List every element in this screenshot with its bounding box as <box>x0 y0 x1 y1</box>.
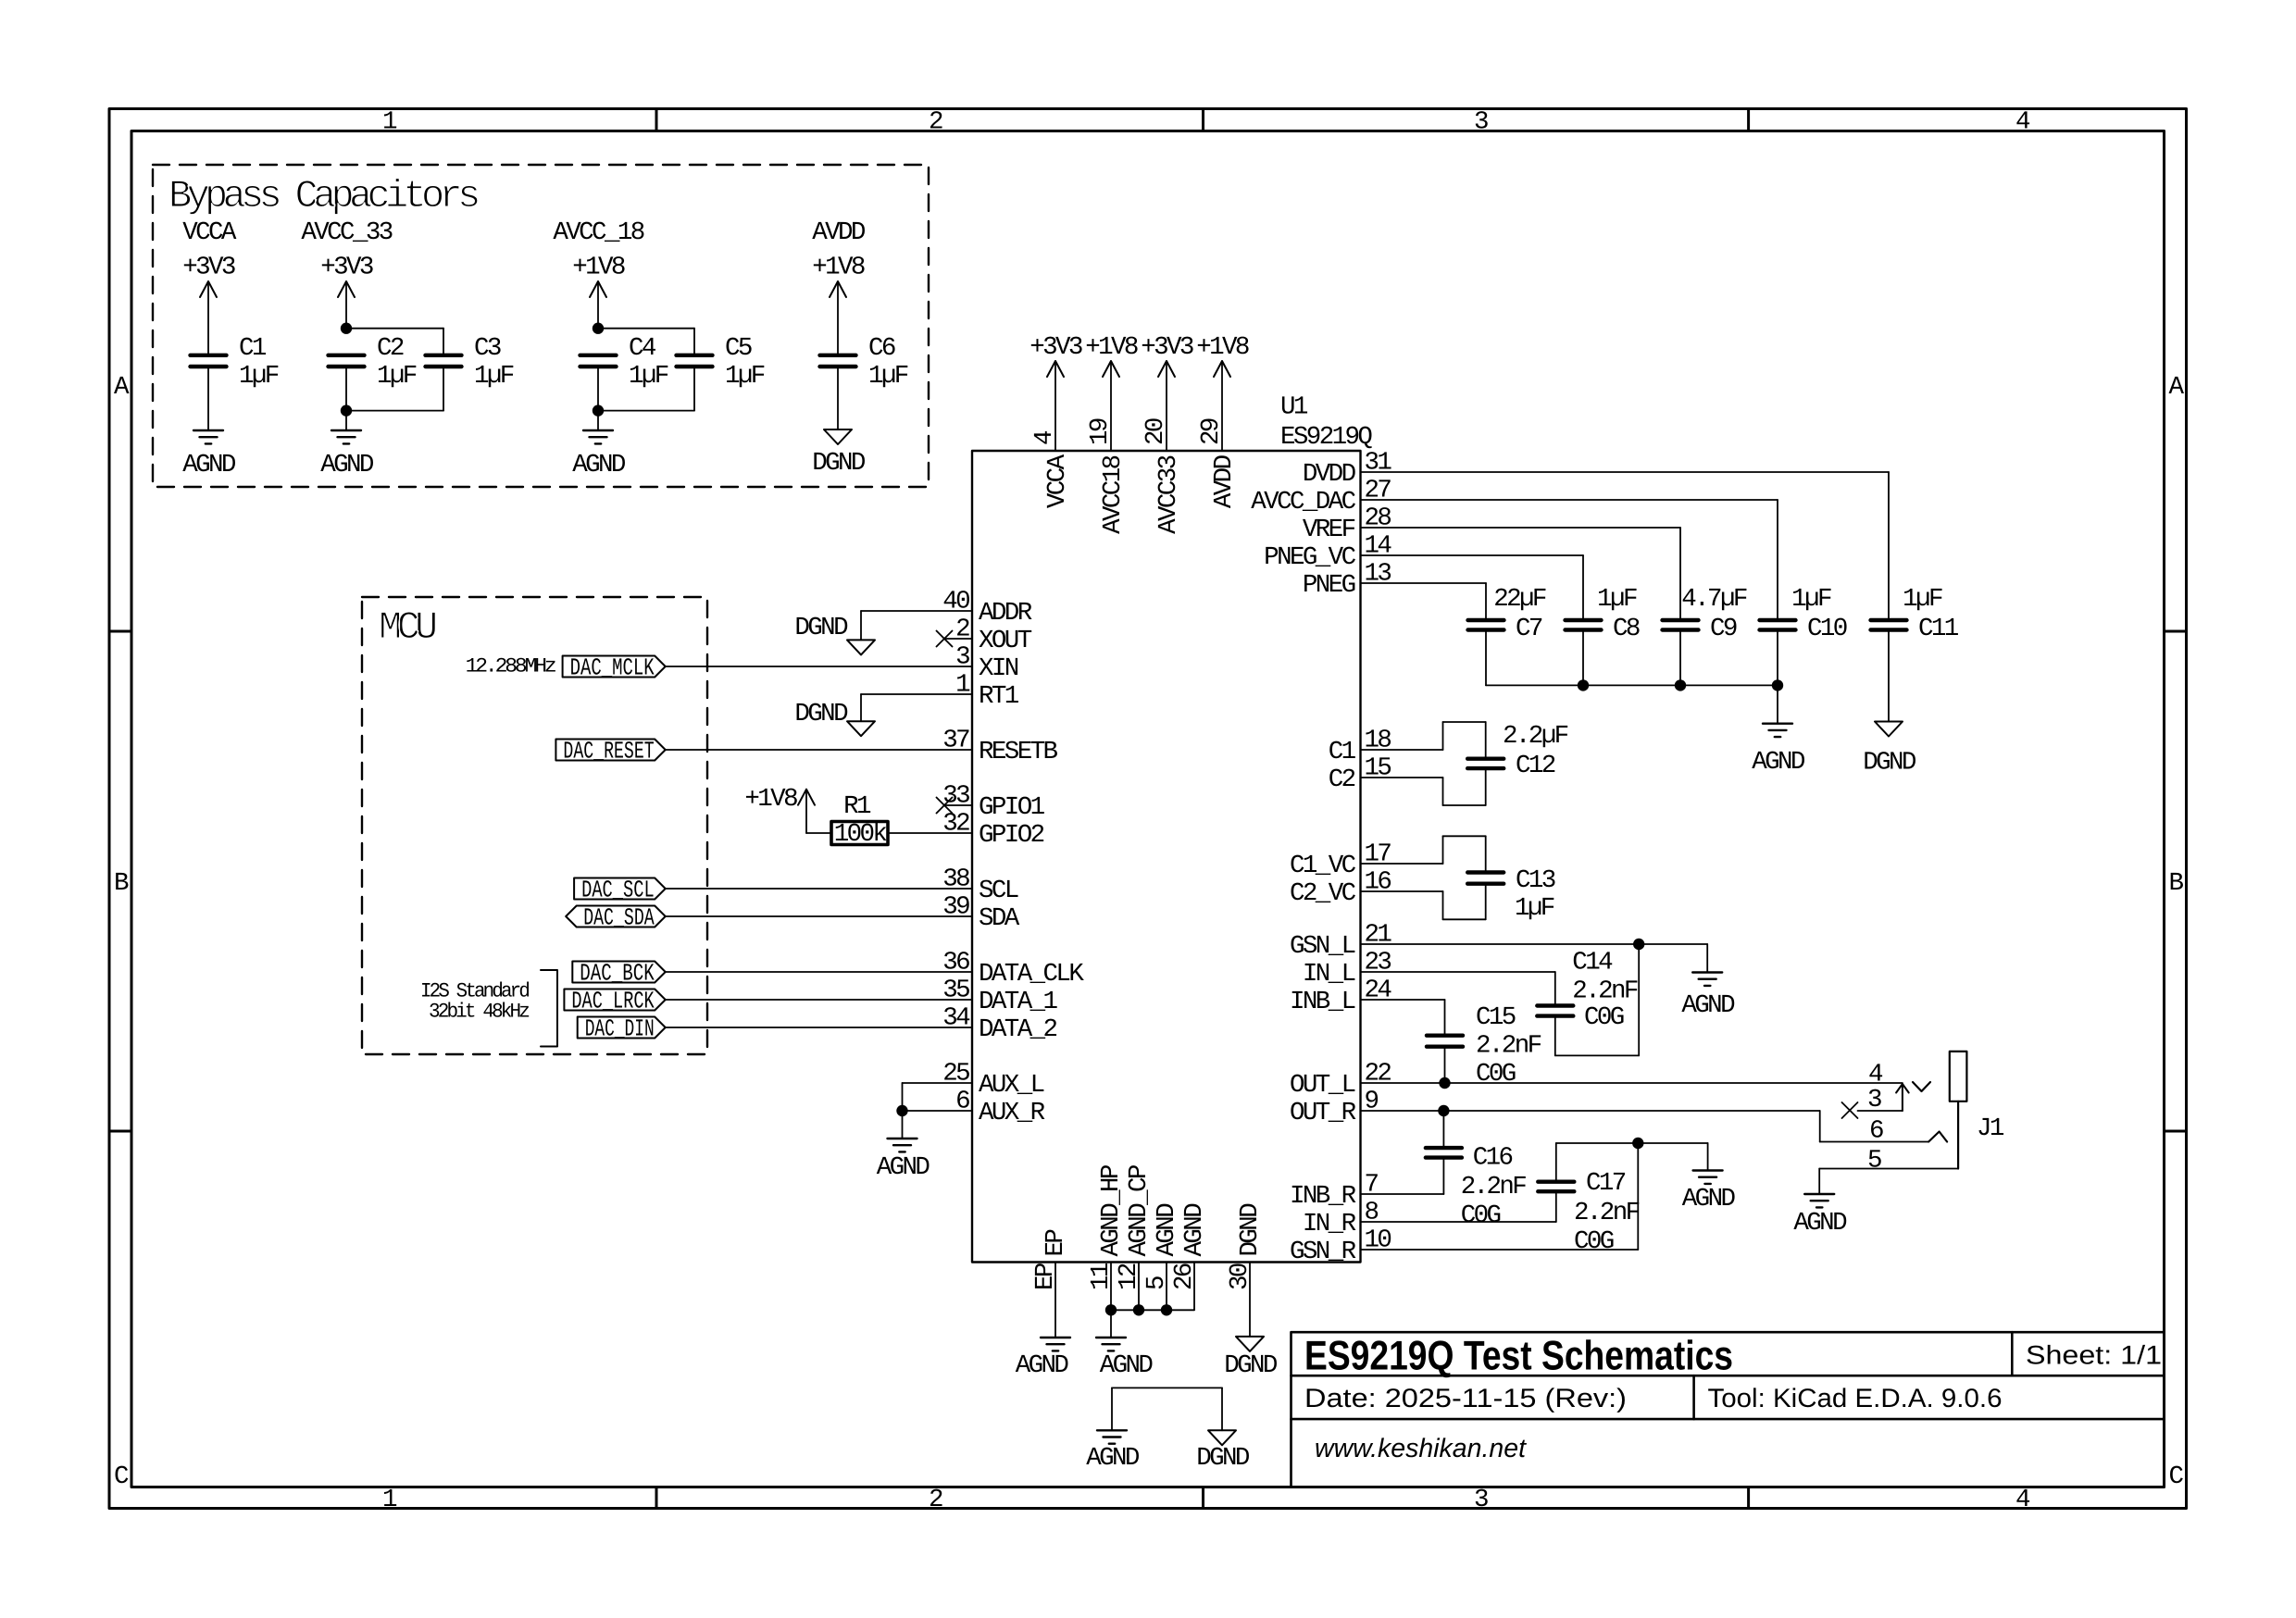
capacitor C11 <box>1871 618 1907 622</box>
svg-text:AGND: AGND <box>1100 1351 1154 1380</box>
svg-text:22: 22 <box>1365 1060 1391 1089</box>
svg-text:29: 29 <box>1197 418 1226 445</box>
svg-text:36: 36 <box>942 949 969 977</box>
wire IN_L to C14 <box>1361 971 1555 973</box>
svg-text:EP: EP <box>1042 1229 1070 1257</box>
wire GSN_L to AGND <box>1706 944 1708 973</box>
junction C17 / GSN_R <box>1632 1138 1643 1149</box>
svg-text:C1_VC: C1_VC <box>1290 852 1356 880</box>
svg-text:38: 38 <box>942 865 969 894</box>
wire DAC_SDA to SDA <box>666 915 972 917</box>
svg-text:23: 23 <box>1365 949 1391 977</box>
svg-text:C2: C2 <box>377 334 404 363</box>
wire C5 bottom link <box>693 367 695 411</box>
wire DAC_SCL to SCL <box>666 888 972 890</box>
capacitor C9 <box>1663 618 1699 622</box>
svg-text:ADDR: ADDR <box>979 599 1032 628</box>
svg-text:1µF: 1µF <box>377 362 417 391</box>
frame column ticks bottom <box>655 1487 658 1509</box>
wire C1_VC pin to C13 <box>1361 863 1443 865</box>
svg-text:C0G: C0G <box>1476 1060 1516 1089</box>
ground AGND (EP) <box>1041 1337 1070 1338</box>
svg-text:AGND: AGND <box>1086 1444 1140 1473</box>
svg-text:MCU: MCU <box>379 605 436 650</box>
frame row ticks left <box>109 630 131 633</box>
svg-text:9: 9 <box>1365 1088 1379 1116</box>
junction AVCC_33 bottom <box>341 404 352 416</box>
wire C16 to INB_R <box>1442 1158 1444 1194</box>
svg-text:DGND: DGND <box>1236 1203 1265 1257</box>
svg-text:12.288MHz: 12.288MHz <box>466 654 556 678</box>
ground DGND (tie) <box>1208 1430 1236 1445</box>
svg-text:+3V3: +3V3 <box>1029 333 1082 362</box>
svg-text:C6: C6 <box>868 334 895 363</box>
wire bus to AGND <box>1110 1310 1112 1338</box>
svg-text:+1V8: +1V8 <box>744 785 797 814</box>
wire OUT_R to J1 <box>1361 1110 1820 1112</box>
svg-text:39: 39 <box>942 893 969 922</box>
junction AGND bus 5 <box>1161 1304 1172 1315</box>
svg-text:C1: C1 <box>1329 738 1356 766</box>
svg-text:+1V8: +1V8 <box>812 254 865 282</box>
wire AUX to AGND <box>902 1111 904 1139</box>
wire AUX_R <box>903 1110 973 1112</box>
wire C1 pin to C12 <box>1361 749 1443 751</box>
svg-text:4: 4 <box>1868 1061 1883 1089</box>
ground AGND (pins 11 12 5 26) <box>1096 1337 1126 1338</box>
svg-text:Date: 2025-11-15 (Rev:): Date: 2025-11-15 (Rev:) <box>1304 1384 1627 1413</box>
wire DAC_LRCK to DATA_1 <box>666 999 972 1001</box>
hier label DAC_BCK <box>572 962 665 983</box>
svg-text:2: 2 <box>929 108 942 137</box>
svg-text:AGND: AGND <box>1752 748 1805 777</box>
svg-text:17: 17 <box>1365 840 1391 869</box>
wire C4 to ground <box>597 411 599 430</box>
ground DGND (ADDR) <box>847 640 875 654</box>
svg-text:RESETB: RESETB <box>979 738 1058 766</box>
wire DAC_BCK to DATA_CLK <box>666 971 972 973</box>
svg-text:1µF: 1µF <box>629 362 668 391</box>
svg-text:C0G: C0G <box>1461 1201 1501 1230</box>
svg-text:4: 4 <box>1030 430 1059 445</box>
svg-text:20: 20 <box>1142 418 1170 445</box>
wire C11 to DGND <box>1888 630 1890 722</box>
no-connect GPIO1 <box>944 804 972 806</box>
capacitor C6 <box>820 354 856 357</box>
wire C4 top link to C5 <box>598 328 694 330</box>
junction C10 bus <box>1772 679 1783 691</box>
svg-text:PNEG_VC: PNEG_VC <box>1264 543 1355 572</box>
svg-text:C: C <box>2169 1462 2184 1491</box>
capacitor C17 <box>1538 1179 1574 1183</box>
svg-text:AVCC18: AVCC18 <box>1099 455 1128 534</box>
svg-text:5: 5 <box>1867 1147 1881 1176</box>
hier label DAC_LRCK <box>564 989 665 1011</box>
wire AGND-DGND tie <box>1112 1387 1222 1388</box>
svg-text:1µF: 1µF <box>1597 585 1637 614</box>
connector J1 body <box>1950 1052 1967 1101</box>
wire ADDR to DGND <box>861 610 972 612</box>
wire to AGND (C17) <box>1707 1143 1709 1171</box>
junction C9 bus <box>1675 679 1686 691</box>
svg-text:C1: C1 <box>239 334 267 363</box>
svg-text:PNEG: PNEG <box>1303 571 1355 600</box>
junction AGND bus 12 <box>1133 1304 1144 1315</box>
junction GSN_L / C14 <box>1633 939 1644 950</box>
svg-text:AGND_CP: AGND_CP <box>1125 1164 1154 1256</box>
svg-text:AVCC_18: AVCC_18 <box>553 218 643 247</box>
capacitor C16 <box>1426 1146 1462 1150</box>
ground DGND (C6) <box>824 429 852 444</box>
svg-text:VREF: VREF <box>1303 516 1355 544</box>
title block <box>1291 1332 2165 1487</box>
svg-text:37: 37 <box>942 727 969 755</box>
wire RT1 to DGND <box>861 693 972 695</box>
wire C1 to ground <box>207 367 209 430</box>
junction AVCC_33 top <box>341 323 352 334</box>
svg-text:DATA_2: DATA_2 <box>979 1015 1057 1044</box>
wire DAC_MCLK to XIN <box>666 666 972 667</box>
capacitor C7 <box>1468 618 1504 622</box>
svg-text:AVDD: AVDD <box>812 218 866 247</box>
svg-text:3: 3 <box>1474 108 1488 137</box>
svg-text:2.2nF: 2.2nF <box>1461 1173 1527 1201</box>
ground AGND (AUX) <box>888 1138 917 1139</box>
svg-text:2.2µF: 2.2µF <box>1503 722 1568 751</box>
svg-text:DGND: DGND <box>794 700 848 728</box>
wire C6 to ground <box>837 367 839 429</box>
svg-text:GSN_R: GSN_R <box>1290 1238 1356 1266</box>
junction AVCC_18 top <box>593 323 604 334</box>
Bypass Capacitors group box <box>153 165 929 487</box>
svg-text:27: 27 <box>1365 477 1391 505</box>
svg-text:C10: C10 <box>1807 615 1847 643</box>
svg-text:C0G: C0G <box>1584 1003 1624 1032</box>
svg-text:C7: C7 <box>1516 615 1542 643</box>
svg-text:SDA: SDA <box>979 904 1020 933</box>
ground AGND (GSN_L) <box>1692 971 1722 973</box>
svg-text:1: 1 <box>382 1486 397 1514</box>
svg-text:1: 1 <box>955 671 970 700</box>
capacitor C8 <box>1566 618 1602 622</box>
svg-text:+3V3: +3V3 <box>1141 333 1193 362</box>
sheet inner border <box>131 131 2165 1487</box>
junction C8 bus <box>1578 679 1589 691</box>
capacitor C15 <box>1427 1033 1463 1037</box>
ground AGND (tie) <box>1097 1429 1127 1431</box>
wire cap ground bus <box>1485 630 1487 686</box>
svg-text:DATA_CLK: DATA_CLK <box>979 960 1084 989</box>
svg-text:1µF: 1µF <box>239 362 279 391</box>
svg-text:4: 4 <box>2015 1486 2030 1514</box>
svg-text:B: B <box>2169 869 2184 898</box>
ground DGND (RT1) <box>847 721 875 736</box>
svg-text:AGND: AGND <box>1681 991 1735 1020</box>
svg-text:DAC_MCLK: DAC_MCLK <box>570 654 655 682</box>
wire AUX_L <box>903 1082 973 1084</box>
svg-text:2: 2 <box>929 1486 942 1514</box>
svg-text:+3V3: +3V3 <box>182 254 235 282</box>
junction OUT_R / C16 <box>1438 1105 1449 1116</box>
ground AGND (cap bus) <box>1763 723 1792 725</box>
svg-text:INB_L: INB_L <box>1290 988 1355 1016</box>
wire bus to AGND <box>1777 685 1778 723</box>
svg-text:C0G: C0G <box>1574 1227 1614 1256</box>
capacitor C14 <box>1537 1003 1573 1007</box>
svg-text:DAC_SCL: DAC_SCL <box>581 877 655 904</box>
svg-text:AGND_HP: AGND_HP <box>1097 1164 1126 1256</box>
svg-text:2.2nF: 2.2nF <box>1572 977 1638 1006</box>
svg-text:+1V8: +1V8 <box>1085 333 1138 362</box>
svg-text:25: 25 <box>942 1060 969 1089</box>
hier label DAC_SDA <box>566 906 666 927</box>
svg-text:AUX_L: AUX_L <box>979 1071 1044 1100</box>
wire DGND pin 30 <box>1249 1263 1251 1337</box>
capacitor C12 <box>1467 757 1504 761</box>
svg-text:C12: C12 <box>1516 752 1555 780</box>
svg-text:AGND: AGND <box>572 451 626 479</box>
svg-text:18: 18 <box>1365 727 1391 755</box>
svg-text:GPIO1: GPIO1 <box>979 793 1045 822</box>
svg-text:AGND: AGND <box>1793 1209 1847 1238</box>
svg-text:1µF: 1µF <box>1515 894 1554 923</box>
svg-text:DAC_BCK: DAC_BCK <box>580 960 655 988</box>
svg-text:7: 7 <box>1365 1171 1379 1200</box>
svg-text:15: 15 <box>1365 754 1391 783</box>
svg-text:C13: C13 <box>1516 866 1555 895</box>
wire GSN_L <box>1361 943 1708 945</box>
frame column ticks top <box>655 109 658 131</box>
svg-text:AGND: AGND <box>1153 1203 1181 1257</box>
junction AUX <box>896 1105 907 1116</box>
svg-text:XIN: XIN <box>979 654 1018 683</box>
svg-text:31: 31 <box>1365 449 1392 478</box>
resistor R1 <box>831 822 888 845</box>
wire OUT_R to C16 <box>1442 1111 1444 1148</box>
svg-text:AVCC_DAC: AVCC_DAC <box>1251 488 1355 517</box>
svg-text:4: 4 <box>2015 108 2030 137</box>
svg-text:AGND: AGND <box>320 451 374 479</box>
svg-text:AGND: AGND <box>1180 1203 1209 1257</box>
svg-text:C: C <box>114 1462 129 1491</box>
svg-text:21: 21 <box>1365 921 1392 950</box>
svg-text:C14: C14 <box>1572 949 1613 977</box>
ground DGND (pin 30) <box>1236 1337 1264 1351</box>
svg-text:AVDD: AVDD <box>1210 454 1239 508</box>
svg-text:+3V3: +3V3 <box>320 254 373 282</box>
svg-text:U1: U1 <box>1280 393 1308 422</box>
svg-text:6: 6 <box>1869 1117 1883 1146</box>
wire DAC_RESET to RESETB <box>666 749 972 751</box>
capacitor C13 <box>1467 870 1504 874</box>
svg-text:J1: J1 <box>1977 1114 2004 1143</box>
svg-text:19: 19 <box>1086 418 1115 445</box>
svg-text:32: 32 <box>942 810 969 839</box>
sheet outer border <box>109 109 2187 1509</box>
svg-text:C4: C4 <box>629 334 656 363</box>
svg-text:XOUT: XOUT <box>979 627 1032 655</box>
svg-text:C15: C15 <box>1476 1003 1516 1032</box>
junction AVCC_18 bottom <box>593 404 604 416</box>
svg-text:2.2nF: 2.2nF <box>1574 1199 1640 1227</box>
capacitor C4 <box>580 354 617 357</box>
svg-text:10: 10 <box>1365 1226 1391 1255</box>
svg-text:RT1: RT1 <box>979 682 1019 711</box>
svg-text:1µF: 1µF <box>474 362 514 391</box>
capacitor C5 <box>677 354 713 357</box>
wire C12 to C2 pin <box>1485 768 1487 805</box>
wire C2 to bottom junction <box>345 367 347 411</box>
svg-text:40: 40 <box>942 588 969 616</box>
svg-text:1µF: 1µF <box>725 362 765 391</box>
svg-text:16: 16 <box>1365 868 1391 897</box>
wire R1 to GPIO2 <box>888 832 972 834</box>
svg-text:C9: C9 <box>1710 615 1737 643</box>
wire C2 to ground <box>345 411 347 430</box>
svg-text:1: 1 <box>382 108 397 137</box>
svg-text:GSN_L: GSN_L <box>1290 932 1355 961</box>
svg-text:INB_R: INB_R <box>1290 1182 1356 1211</box>
svg-text:1µF: 1µF <box>1791 585 1831 614</box>
svg-text:AUX_R: AUX_R <box>979 1099 1045 1127</box>
svg-text:28: 28 <box>1365 504 1391 533</box>
ground AGND (C2) <box>331 429 361 431</box>
wire C14 to GSN_L <box>1554 1016 1556 1056</box>
I2S bracket <box>541 970 557 1047</box>
ground AGND (J1) <box>1804 1193 1834 1195</box>
svg-text:C5: C5 <box>725 334 752 363</box>
wire C2 top link to C3 <box>346 328 443 330</box>
wire AVCC_DAC to C10 <box>1361 499 1778 501</box>
ground AGND (C1) <box>193 429 223 431</box>
svg-text:32bit 48kHz: 32bit 48kHz <box>429 1000 530 1023</box>
svg-text:VCCA: VCCA <box>1043 454 1072 508</box>
capacitor C10 <box>1760 618 1796 622</box>
svg-text:OUT_R: OUT_R <box>1290 1099 1356 1127</box>
ground DGND (C11) <box>1875 722 1903 737</box>
junction OUT_L / C15 <box>1439 1077 1450 1089</box>
svg-text:22µF: 22µF <box>1493 585 1546 614</box>
svg-text:13: 13 <box>1365 560 1391 589</box>
svg-text:DGND: DGND <box>812 449 866 478</box>
wire EP to AGND <box>1054 1263 1056 1338</box>
svg-text:14: 14 <box>1365 532 1392 561</box>
hier label DAC_MCLK <box>563 656 666 678</box>
svg-text:8: 8 <box>1365 1199 1379 1227</box>
svg-text:AGND: AGND <box>1682 1185 1736 1213</box>
wire AGND pins bus <box>1110 1263 1112 1311</box>
svg-text:4.7µF: 4.7µF <box>1681 585 1747 614</box>
wire DAC_DIN to DATA_2 <box>666 1027 972 1028</box>
svg-text:ES9219Q Test Schematics: ES9219Q Test Schematics <box>1304 1333 1733 1378</box>
svg-text:ES9219Q: ES9219Q <box>1280 423 1372 452</box>
wire VREF to C9 <box>1361 527 1681 529</box>
capacitor C1 <box>191 354 227 357</box>
svg-text:VCCA: VCCA <box>182 218 237 247</box>
svg-text:DAC_RESET: DAC_RESET <box>563 738 654 765</box>
svg-text:www.keshikan.net: www.keshikan.net <box>1315 1434 1527 1463</box>
capacitor C2 <box>329 354 365 357</box>
junction AGND bus 11 <box>1105 1304 1117 1315</box>
svg-text:2: 2 <box>955 616 969 644</box>
hier label DAC_SCL <box>574 878 666 900</box>
capacitor C3 <box>426 354 462 357</box>
svg-text:DVDD: DVDD <box>1303 460 1356 489</box>
wire PNEG_VC to C8 <box>1361 554 1584 556</box>
svg-text:+1V8: +1V8 <box>1196 333 1249 362</box>
svg-text:DGND: DGND <box>1196 1444 1250 1473</box>
svg-text:IN_L: IN_L <box>1303 960 1355 989</box>
svg-text:C17: C17 <box>1586 1169 1626 1198</box>
svg-text:33: 33 <box>942 782 969 811</box>
svg-text:OUT_L: OUT_L <box>1290 1071 1355 1100</box>
wire C4 to bottom junction <box>597 367 599 411</box>
svg-text:1µF: 1µF <box>1903 585 1942 614</box>
svg-text:AGND: AGND <box>182 451 236 479</box>
svg-text:R1: R1 <box>843 792 871 821</box>
svg-text:AGND: AGND <box>1016 1351 1069 1380</box>
wire DVDD to C11 <box>1361 471 1890 473</box>
wire C13 to C2_VC pin <box>1485 884 1487 920</box>
svg-text:+1V8: +1V8 <box>572 254 625 282</box>
svg-text:Bypass Capacitors: Bypass Capacitors <box>168 174 478 218</box>
ground AGND (C17) <box>1693 1169 1723 1171</box>
svg-text:35: 35 <box>942 977 969 1005</box>
wire OUT_L to J1 <box>1361 1082 1903 1084</box>
wire C3 bottom link <box>443 367 444 411</box>
op-amp U1 ES9219Q body <box>972 451 1361 1263</box>
ground AGND (C4) <box>583 429 613 431</box>
svg-text:C11: C11 <box>1918 615 1959 643</box>
svg-text:AVCC_33: AVCC_33 <box>301 218 392 247</box>
svg-text:DAC_LRCK: DAC_LRCK <box>571 988 655 1015</box>
wire +1V8 to R1 <box>806 832 831 834</box>
svg-text:Tool: KiCad E.D.A. 9.0.6: Tool: KiCad E.D.A. 9.0.6 <box>1708 1384 2003 1413</box>
svg-text:DGND: DGND <box>1224 1351 1278 1380</box>
wire IN_R to C17 <box>1361 1221 1556 1223</box>
svg-text:2.2nF: 2.2nF <box>1476 1032 1541 1061</box>
svg-text:AVCC33: AVCC33 <box>1154 455 1183 534</box>
wire junction to GSN_R <box>1637 1143 1639 1250</box>
svg-text:DGND: DGND <box>794 614 848 642</box>
svg-text:C2: C2 <box>1329 765 1355 794</box>
hier label DAC_DIN <box>578 1017 666 1039</box>
no-connect XOUT <box>944 638 972 640</box>
svg-text:IN_R: IN_R <box>1303 1210 1356 1238</box>
wire C17 top to AGND <box>1555 1143 1557 1182</box>
svg-text:100k: 100k <box>834 820 888 849</box>
svg-text:6: 6 <box>955 1088 969 1116</box>
svg-text:C3: C3 <box>474 334 501 363</box>
svg-text:Sheet: 1/1: Sheet: 1/1 <box>2026 1341 2162 1371</box>
svg-text:24: 24 <box>1365 977 1392 1005</box>
svg-text:GPIO2: GPIO2 <box>979 821 1044 850</box>
svg-text:AGND: AGND <box>877 1153 930 1182</box>
svg-text:DAC_DIN: DAC_DIN <box>585 1015 655 1043</box>
svg-text:DAC_SDA: DAC_SDA <box>583 904 655 932</box>
svg-text:SCL: SCL <box>979 877 1018 905</box>
svg-text:C8: C8 <box>1613 615 1640 643</box>
frame row ticks right <box>2165 630 2187 633</box>
svg-text:1µF: 1µF <box>868 362 908 391</box>
MCU group box <box>362 597 707 1054</box>
svg-text:C16: C16 <box>1473 1144 1513 1173</box>
svg-text:DGND: DGND <box>1863 749 1916 778</box>
wire PNEG to C7 <box>1361 582 1487 584</box>
svg-text:DATA_1: DATA_1 <box>979 988 1058 1016</box>
svg-text:B: B <box>114 869 129 898</box>
wire INB_L to C15 <box>1361 999 1445 1001</box>
